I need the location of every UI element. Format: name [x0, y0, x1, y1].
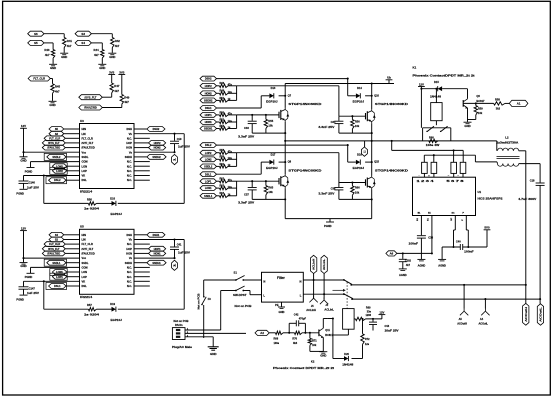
svg-text:R58: R58: [495, 98, 500, 102]
power 5V0: [484, 229, 491, 231]
svg-text:ACLInH: ACLInH: [312, 259, 316, 270]
module input pin F3: [451, 162, 457, 173]
wire: [347, 329, 349, 335]
svg-text:R72: R72: [365, 338, 370, 341]
svg-text:GND: GND: [279, 310, 285, 314]
svg-text:Vs: Vs: [129, 256, 133, 260]
net tag LON1: [200, 186, 217, 191]
svg-text:ACOutH: ACOutH: [524, 307, 528, 322]
svg-text:Vcc: Vcc: [82, 256, 87, 260]
svg-text:HOP: HOP: [126, 141, 132, 145]
wire: [91, 33, 112, 35]
net tag HOP1: [200, 113, 217, 118]
net tag LOP2: [50, 167, 67, 174]
svg-text:K2: K2: [311, 360, 315, 364]
svg-text:R43: R43: [44, 48, 50, 52]
resistor R59 10k: [475, 102, 477, 104]
wire: [442, 88, 467, 90]
svg-text:10k: 10k: [478, 111, 483, 115]
svg-text:GND: GND: [109, 55, 115, 59]
svg-text:R51: R51: [220, 97, 225, 100]
svg-text:1 2 3 4: 1 2 3 4: [417, 180, 436, 183]
relay K2 link (dashed): [346, 282, 348, 309]
svg-text:HON: HON: [126, 146, 132, 150]
resistor R61 1k: [217, 165, 220, 167]
connector A5 ACOutH: [463, 285, 465, 309]
net tag ACLInL (vertical): [321, 255, 327, 273]
svg-text:LON: LON: [82, 270, 88, 274]
svg-text:GND: GND: [50, 66, 56, 70]
svg-text:EGP10J: EGP10J: [111, 318, 123, 322]
svg-text:Q7: Q7: [288, 93, 292, 97]
svg-text:ACLInH: ACLInH: [306, 308, 316, 312]
resistor R57 1e: [88, 308, 96, 311]
ground PGND: [31, 266, 80, 268]
svg-text:HON1: HON1: [205, 121, 213, 124]
power Ub: [386, 79, 393, 81]
transistor Q6 BC817: [462, 100, 464, 107]
wire: [134, 262, 147, 264]
svg-text:HIN: HIN: [82, 127, 87, 131]
svg-text:VK: VK: [82, 174, 86, 178]
wire DC+ rail Ub: [285, 83, 394, 85]
wire ACOutL: [352, 298, 540, 300]
capacitor C18 4.7uF 300V: [536, 182, 545, 184]
svg-text:10k: 10k: [268, 124, 273, 128]
svg-text:R48: R48: [220, 90, 225, 93]
svg-text:GND: GND: [464, 124, 470, 128]
wire: [66, 262, 80, 264]
svg-text:N.C.: N.C.: [127, 178, 132, 182]
wire: [134, 165, 150, 167]
svg-text:R41: R41: [67, 39, 73, 43]
svg-text:C34: C34: [331, 120, 336, 124]
wire: [23, 128, 25, 152]
svg-text:SC: SC: [451, 217, 453, 220]
wire gate column: [236, 115, 238, 129]
svg-text:12e: 12e: [228, 157, 233, 160]
wire: [24, 280, 80, 282]
svg-text:4k7: 4k7: [67, 44, 72, 48]
svg-text:D14: D14: [357, 86, 362, 90]
svg-text:C19: C19: [177, 137, 182, 141]
wire pin stub: [462, 173, 464, 177]
relay K2 contacts: [343, 279, 345, 281]
wire gate feed: [237, 85, 339, 87]
wire pin stub: [433, 173, 435, 177]
net tag FLT_CLR: [28, 76, 50, 81]
wire Q10 emitter / Q15 collector: [371, 123, 373, 175]
resistor R45 4k7: [52, 79, 54, 84]
svg-text:R58: R58: [220, 149, 225, 152]
svg-text:R42: R42: [115, 39, 121, 43]
net tag DSL2: [200, 143, 217, 148]
svg-text:DSL1: DSL1: [205, 173, 212, 176]
svg-text:10k: 10k: [355, 124, 360, 128]
wire: [23, 231, 25, 259]
svg-text:Filter: Filter: [277, 276, 286, 280]
svg-text:FLT_CLR: FLT_CLR: [82, 242, 93, 246]
capacitor C33 3.3nF 25V: [251, 115, 253, 121]
wire: [420, 87, 422, 89]
desat wire DSH1: [217, 107, 262, 109]
svg-text:33e: 33e: [367, 310, 372, 313]
svg-text:C33: C33: [244, 126, 249, 130]
svg-text:STGP14NC60KD: STGP14NC60KD: [375, 169, 408, 172]
svg-text:STGP14NC60KD: STGP14NC60KD: [288, 169, 321, 172]
svg-text:Not on PCB: Not on PCB: [235, 304, 252, 308]
wire gate: [237, 180, 279, 182]
wire: [463, 246, 487, 248]
svg-text:HON1: HON1: [154, 253, 162, 256]
svg-text:A1: A1: [517, 102, 521, 106]
svg-text:N.C.: N.C.: [127, 266, 132, 270]
wire: [134, 147, 149, 149]
wire: [50, 78, 52, 80]
wire: [118, 202, 184, 204]
resistor R68 100e: [269, 332, 275, 334]
svg-text:Plug/AC Male: Plug/AC Male: [172, 345, 193, 349]
net tag FLT_CLR: [44, 136, 65, 141]
svg-text:47e: 47e: [228, 84, 233, 87]
svg-text:R53: R53: [220, 125, 225, 128]
module input pin F2: [431, 162, 437, 173]
svg-text:N.C.: N.C.: [127, 270, 132, 274]
wire Q10 collector: [371, 84, 373, 110]
svg-text:100e: 100e: [274, 342, 280, 345]
wire: [252, 198, 285, 200]
wire: [64, 128, 80, 130]
svg-text:470pF: 470pF: [299, 318, 307, 321]
diode D15 1N4148: [438, 86, 442, 91]
wire rail3: [424, 154, 475, 156]
wire: [134, 276, 150, 278]
wire: [67, 165, 80, 167]
capacitor C19 1uF 25V: [174, 134, 176, 141]
wire: [102, 96, 111, 98]
svg-text:4k7: 4k7: [124, 100, 129, 104]
wire to L2 bottom: [474, 155, 476, 162]
svg-text:C37: C37: [244, 193, 249, 197]
svg-text:ACOutL: ACOutL: [479, 323, 489, 326]
svg-text:R50: R50: [220, 111, 225, 114]
svg-text:12V: 12V: [419, 82, 424, 86]
svg-text:12e: 12e: [228, 186, 233, 189]
svg-text:Vb: Vb: [129, 132, 133, 136]
svg-text:C36: C36: [428, 236, 433, 240]
resistor R43 4k7: [52, 43, 54, 50]
desat wire DSL1: [217, 173, 262, 175]
svg-text:4k7: 4k7: [94, 53, 99, 57]
svg-text:LON2: LON2: [56, 165, 63, 168]
net tag SSDL2: [44, 153, 66, 160]
svg-text:R56: R56: [87, 197, 92, 201]
svg-text:1uF 25V: 1uF 25V: [27, 291, 39, 295]
svg-text:4k7: 4k7: [55, 89, 60, 93]
wire: [96, 202, 111, 204]
net tag DSH1: [200, 106, 217, 111]
svg-text:GND: GND: [320, 353, 326, 357]
svg-text:SSDH: SSDH: [125, 155, 132, 159]
svg-text:LOP: LOP: [82, 275, 88, 279]
svg-text:R57: R57: [87, 303, 92, 307]
wire: [134, 252, 149, 254]
capacitor C38 3.3nF 25V: [338, 183, 340, 188]
wire: [24, 175, 80, 177]
net tag S6: [28, 31, 44, 36]
capacitor C42 470pF: [288, 323, 290, 333]
wire gate column: [236, 181, 238, 196]
svg-text:C41: C41: [177, 243, 182, 247]
resistor R69 33e 1206: [356, 317, 366, 320]
svg-text:R47: R47: [114, 84, 120, 88]
svg-text:12e: 12e: [365, 343, 370, 346]
svg-text:GND: GND: [210, 352, 218, 356]
svg-text:N.C.: N.C.: [127, 136, 132, 140]
wire: [134, 142, 149, 144]
svg-text:R45: R45: [55, 85, 61, 89]
resistor R58 3k3: [463, 102, 493, 104]
svg-text:LOP2: LOP2: [56, 170, 63, 173]
svg-text:Vs: Vs: [129, 150, 133, 154]
net tag LOP2: [200, 150, 217, 155]
svg-text:DSL2: DSL2: [205, 144, 212, 147]
svg-text:Not on PCB: Not on PCB: [174, 319, 189, 323]
svg-text:ACOutL: ACOutL: [539, 307, 543, 322]
svg-text:HON2: HON2: [205, 92, 213, 95]
desat wire DSH2: [217, 78, 348, 80]
svg-text:EGP10J: EGP10J: [111, 212, 123, 216]
wire: [67, 170, 80, 172]
net tag HON2: [200, 91, 217, 96]
capacitor C41 1uF 25V: [174, 240, 176, 247]
wire: [420, 89, 422, 128]
svg-text:HCS 25AHFSP2: HCS 25AHFSP2: [478, 197, 504, 201]
wire: [204, 279, 236, 281]
svg-text:N.C.: N.C.: [127, 279, 132, 283]
module input pin F4: [460, 162, 466, 173]
net tag S3: [75, 31, 91, 36]
svg-text:VK: VK: [82, 279, 86, 283]
svg-text:FLT_CLR: FLT_CLR: [82, 136, 93, 140]
ground GND: [464, 121, 472, 123]
ground GND earth: [212, 337, 214, 347]
wire: [65, 252, 79, 254]
svg-text:Not on PCB: Not on PCB: [197, 293, 201, 309]
capacitor C40 100nF: [459, 244, 461, 250]
resistor R53 1k: [217, 128, 220, 130]
wire: [243, 290, 250, 292]
wire: [134, 128, 147, 130]
wire: [397, 252, 432, 254]
resistor R58 47e: [217, 152, 220, 154]
wire: [134, 257, 175, 259]
svg-text:Phoenix ContactDPDT MR..2t 2t: Phoenix ContactDPDT MR..2t 2t: [413, 73, 475, 77]
wire: [134, 175, 150, 177]
svg-text:SSDH2: SSDH2: [152, 156, 161, 159]
wire Q7 emitter / Q8 collector: [284, 122, 286, 174]
svg-text:103e 4W: 103e 4W: [426, 143, 440, 147]
wire: [67, 276, 80, 278]
svg-text:3V3: 3V3: [119, 70, 125, 74]
svg-text:HOP1: HOP1: [154, 248, 161, 251]
relay K1 contacts: [435, 121, 437, 126]
svg-text:3.3nF 25V: 3.3nF 25V: [238, 201, 254, 205]
svg-text:10k: 10k: [268, 190, 273, 194]
svg-text:/FAULT/SD: /FAULT/SD: [84, 107, 97, 110]
svg-text:DSH: DSH: [127, 127, 133, 131]
svg-text:R71: R71: [312, 340, 317, 343]
transistor Q10 STGP14NC60KD: [365, 113, 367, 119]
net tag HOP2: [200, 83, 217, 88]
svg-text:4k7: 4k7: [114, 89, 119, 93]
power 3V3: [118, 74, 125, 76]
svg-text:HIN: HIN: [82, 233, 87, 237]
resistor R62 47e: [217, 180, 220, 182]
svg-text:R68: R68: [274, 338, 279, 341]
svg-text:HOP1: HOP1: [205, 114, 212, 117]
svg-text:SSDH: SSDH: [125, 261, 132, 265]
wire: [134, 234, 147, 236]
diode D13 EGP10J: [261, 95, 269, 97]
svg-text:N.C.: N.C.: [127, 275, 132, 279]
svg-text:4k7: 4k7: [45, 53, 50, 57]
net tag A6: [386, 251, 397, 256]
svg-text:1N4148: 1N4148: [342, 364, 354, 367]
wire gate column: [236, 153, 238, 167]
svg-text:Vb: Vb: [129, 238, 133, 242]
net tag /SYS_FLT: [42, 246, 65, 251]
net tag /SYS_FLT: [42, 141, 65, 146]
svg-text:PGND: PGND: [16, 192, 24, 196]
net tag DSL2: [46, 177, 67, 184]
wire: [322, 337, 324, 351]
desat wire DSL2: [217, 144, 348, 146]
svg-text:PE: PE: [275, 303, 279, 307]
svg-text:IR2214: IR2214: [80, 189, 92, 193]
capacitor C146 1uF 25V: [23, 176, 25, 181]
svg-text:SSDL1: SSDL1: [204, 195, 213, 198]
resistor R56 10k: [351, 116, 353, 119]
net tag S5: [49, 127, 64, 132]
svg-text:STGP14NC60KD: STGP14NC60KD: [288, 103, 321, 106]
svg-text:1206: 1206: [366, 314, 372, 317]
svg-text:C42: C42: [294, 314, 299, 317]
svg-text:R70: R70: [292, 338, 297, 341]
diode D19 EGP10J: [112, 307, 116, 312]
svg-text:100nF: 100nF: [464, 250, 474, 254]
svg-text:10k: 10k: [355, 190, 360, 194]
svg-text:47e: 47e: [228, 151, 233, 154]
wire: [64, 239, 80, 241]
svg-text:Q11: Q11: [325, 329, 330, 332]
svg-text:SSDL1: SSDL1: [52, 262, 61, 265]
resistor R42 4k7: [111, 34, 113, 38]
net tag HON1: [200, 120, 217, 125]
resistor R70 3k3: [295, 331, 303, 334]
svg-text:DSH1: DSH1: [153, 234, 160, 237]
wire: [302, 332, 319, 334]
svg-text:DSH1: DSH1: [205, 107, 212, 110]
capacitor C43 10uF 25V: [372, 319, 374, 322]
svg-text:3.3nF 25V: 3.3nF 25V: [318, 192, 334, 196]
wire pin stub: [453, 173, 455, 177]
svg-text:N.C.: N.C.: [127, 169, 132, 173]
svg-text:K1: K1: [413, 66, 417, 70]
wire module pin SC: [454, 216, 456, 231]
ground GND: [49, 100, 57, 102]
svg-text:N: N: [263, 279, 265, 283]
wire: [134, 271, 150, 273]
svg-text:HON2: HON2: [154, 147, 162, 150]
svg-text:2x3mH/2T30A: 2x3mH/2T30A: [496, 142, 518, 145]
wire gate: [339, 115, 366, 117]
resistor R59 12e: [217, 158, 220, 160]
net tag SSDL1: [44, 259, 66, 266]
svg-text:SSDH1: SSDH1: [204, 128, 213, 131]
net tag S3: [49, 131, 64, 136]
svg-text:PGND: PGND: [25, 169, 33, 173]
svg-text:/SYS_FLT: /SYS_FLT: [48, 248, 60, 251]
svg-text:HOP: HOP: [126, 247, 132, 251]
power 12V: [379, 314, 386, 316]
svg-text:R52: R52: [220, 118, 225, 121]
svg-text:GND: GND: [20, 264, 26, 268]
svg-text:C38: C38: [331, 186, 336, 190]
resistor R52 12e: [217, 121, 220, 123]
power 12V: [418, 86, 425, 88]
svg-text:R59: R59: [478, 106, 483, 110]
svg-text:Q10: Q10: [374, 93, 379, 97]
net tag SSDL1: [200, 193, 217, 198]
diode D16 EGP10J: [348, 161, 356, 163]
svg-text:FLT_CLR: FLT_CLR: [49, 243, 60, 246]
capacitor C37 3.3nF 25V: [251, 181, 253, 187]
resistor R56 1e: [88, 202, 96, 205]
wire: [134, 248, 149, 250]
svg-text:3k3: 3k3: [496, 106, 501, 110]
svg-text:DSL: DSL: [82, 284, 88, 288]
wire: [66, 179, 80, 181]
svg-text:S6: S6: [34, 32, 38, 36]
svg-text:12V: 12V: [379, 310, 384, 314]
svg-text:N: N: [299, 279, 301, 283]
wire gate feed: [237, 152, 339, 154]
connector J5 ACLInH: [313, 296, 315, 299]
svg-text:DSL1: DSL1: [54, 285, 61, 288]
svg-text:R69: R69: [366, 307, 371, 310]
svg-text:N.C.: N.C.: [127, 160, 132, 164]
svg-text:LOP1: LOP1: [56, 276, 63, 279]
wire: [118, 308, 184, 310]
wire: [134, 170, 150, 172]
svg-text:PACIn: PACIn: [175, 323, 183, 327]
svg-text:LOP2: LOP2: [205, 152, 212, 155]
wire: [134, 243, 150, 245]
ground PGND: [20, 188, 28, 190]
resistor R44 4k7: [101, 43, 103, 50]
power 12V: [20, 230, 27, 232]
svg-text:1uF 25V: 1uF 25V: [178, 145, 190, 149]
wire: [134, 266, 150, 268]
wire pin stub: [423, 173, 425, 177]
ground AGND: [417, 258, 425, 260]
svg-text:U3: U3: [80, 119, 84, 123]
wire gate: [339, 182, 366, 184]
svg-text:A6: A6: [390, 252, 394, 256]
svg-text:HOP2: HOP2: [205, 85, 212, 88]
svg-text:SSDL: SSDL: [82, 261, 89, 265]
